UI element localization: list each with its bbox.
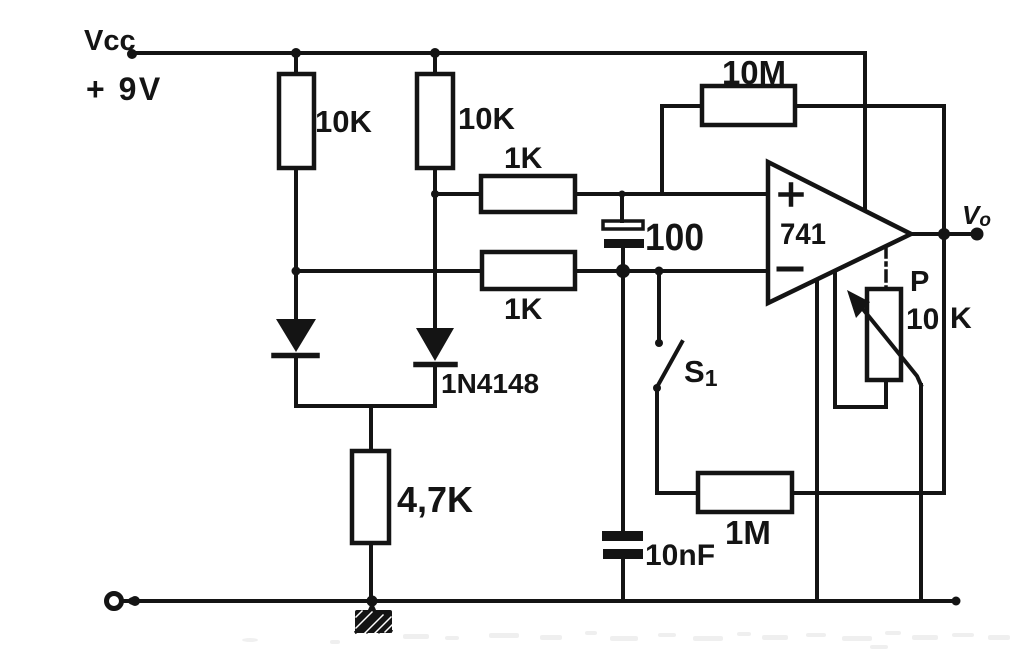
- wire top Vcc rail: [133, 51, 865, 55]
- potentiometer P body: [867, 289, 901, 380]
- svg-text:10nF: 10nF: [645, 539, 715, 572]
- op-amp U1 minus symbol: [779, 267, 801, 272]
- wire op-amp output: [911, 232, 976, 236]
- wire non-inverting rail left segment: [435, 192, 481, 196]
- wire R1 bottom lead down to diode D1: [294, 168, 298, 320]
- junction node C1 top stub: [619, 191, 626, 198]
- resistor R1 10K body: [279, 74, 314, 168]
- wire R2 bottom lead down to diode D2: [433, 168, 437, 329]
- switch S1 blade: [657, 342, 682, 387]
- resistor R4 1K body (bottom): [482, 252, 575, 289]
- wire C1 top stub: [620, 194, 624, 221]
- diode D1 triangle: [276, 319, 316, 352]
- svg-text:P: P: [910, 266, 929, 298]
- node Vcc terminal dot: [127, 49, 137, 59]
- wire output column down to 1M: [942, 234, 946, 493]
- junction node C1/inverting rail: [616, 264, 630, 278]
- op-amp U1 plus symbol: [781, 185, 802, 205]
- junction node B (R2 top): [430, 48, 440, 58]
- capacitor C2 10nF top lead: [621, 271, 625, 531]
- wire wiper drop to ground rail: [919, 385, 923, 601]
- svg-text:1N4148: 1N4148: [441, 368, 539, 399]
- switch S1 upper contact dot: [655, 339, 663, 347]
- wire R2 top lead: [433, 53, 437, 74]
- wire C1 bottom stub: [621, 248, 625, 271]
- wire inverting rail right segment to op-amp: [575, 269, 768, 273]
- junction node S1 branch: [655, 267, 664, 276]
- wire non-inverting rail right segment to op-amp: [575, 192, 768, 196]
- wire bottom ground rail: [124, 599, 957, 603]
- resistor R5 10M body: [702, 86, 795, 125]
- svg-text:K: K: [950, 302, 972, 335]
- svg-text:1K: 1K: [504, 142, 543, 175]
- wire diode common bottom link: [296, 404, 435, 408]
- junction node (R1/inverting rail): [292, 267, 301, 276]
- diode D2 cathode bar: [416, 362, 455, 368]
- diode D1 cathode bar: [274, 353, 317, 359]
- wire R5 right lead to output column: [795, 106, 944, 234]
- svg-text:4,7K: 4,7K: [397, 479, 473, 520]
- ground symbol hatch block: [355, 601, 392, 633]
- resistor R2 10K body: [417, 74, 453, 168]
- svg-text:741: 741: [780, 218, 826, 251]
- junction node A (R1 top): [291, 48, 301, 58]
- capacitor C2 bottom plate: [603, 549, 643, 559]
- resistor R7 4,7K body: [352, 451, 389, 543]
- svg-text:100: 100: [645, 217, 704, 259]
- junction node R2/1K lead: [431, 190, 439, 198]
- wire C2 bottom lead: [621, 559, 625, 601]
- capacitor C1 100 top plate (outline): [603, 221, 643, 229]
- wire pot bottom U-link to op-amp underside: [835, 272, 886, 407]
- svg-text:10M: 10M: [722, 54, 786, 91]
- wire D1 bottom lead: [294, 355, 298, 406]
- capacitor C1 100 bottom plate (filled): [604, 239, 644, 248]
- wire R5 left lead and drop to non-inverting rail: [662, 106, 702, 194]
- svg-text:10K: 10K: [458, 101, 515, 136]
- wire R7 bottom lead: [369, 543, 373, 601]
- capacitor C2 top plate: [602, 531, 643, 541]
- ground junction dot: [367, 596, 378, 607]
- svg-text:+ 9V: + 9V: [86, 71, 163, 107]
- op-amp U1 741 triangle: [768, 162, 911, 303]
- wire D2 bottom lead: [433, 364, 437, 406]
- wire S1 down to 1M: [657, 388, 698, 493]
- wire R1 top lead: [294, 53, 298, 74]
- resistor R6 1M body: [698, 473, 792, 512]
- node rail end dot: [952, 597, 961, 606]
- svg-text:Vo: Vo: [962, 200, 991, 231]
- wire pot top lead (dash-dot): [884, 247, 888, 289]
- wire op-amp V+ supply drop: [863, 53, 867, 209]
- junction node output/feedback: [938, 228, 950, 240]
- svg-text:S1: S1: [684, 354, 718, 391]
- svg-text:10K: 10K: [315, 104, 372, 139]
- node O terminal ring: [107, 594, 122, 609]
- svg-text:1M: 1M: [725, 514, 771, 551]
- svg-text:1K: 1K: [504, 293, 543, 326]
- potentiometer P wiper arrow: [858, 303, 921, 385]
- potentiometer P wiper arrowhead: [847, 290, 870, 318]
- resistor R3 1K body (top): [481, 176, 575, 212]
- wire R6 right lead up to output column: [792, 491, 944, 495]
- node Vo terminal dot: [971, 228, 984, 241]
- wire inverting rail left segment: [296, 269, 482, 273]
- wire op-amp V- supply drop to ground rail: [815, 280, 819, 601]
- wire R7 top lead: [369, 406, 373, 451]
- svg-text:10: 10: [906, 303, 939, 336]
- switch S1 upper stub: [657, 271, 661, 340]
- svg-text:Vcc: Vcc: [84, 25, 136, 57]
- diode D2 triangle: [416, 328, 454, 361]
- node terminal arrow dot: [127, 597, 140, 605]
- switch S1 lower contact dot: [653, 384, 661, 392]
